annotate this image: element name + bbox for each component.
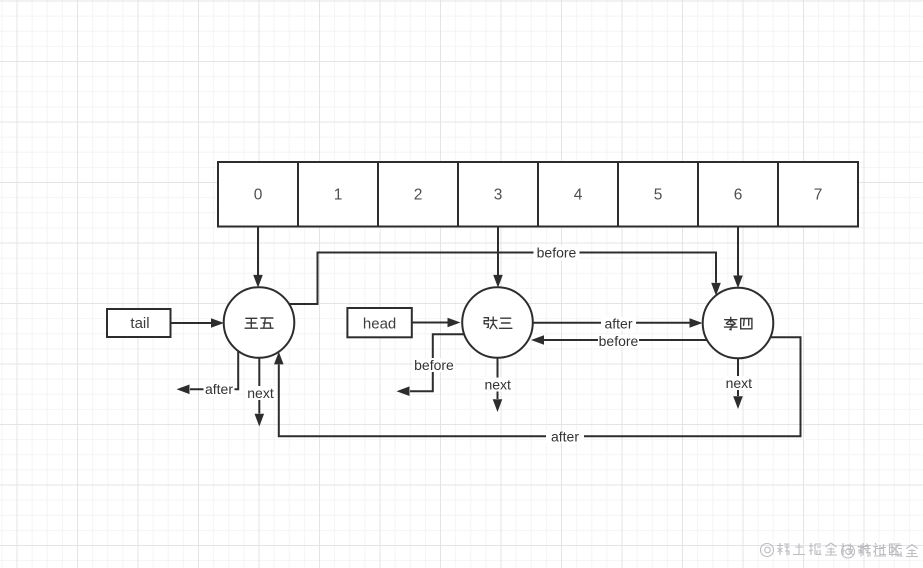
- svg-text:head: head: [363, 316, 396, 333]
- svg-text:0: 0: [254, 187, 263, 204]
- svg-text:before: before: [537, 245, 577, 261]
- svg-text:after: after: [551, 429, 579, 445]
- svg-text:tail: tail: [130, 315, 149, 332]
- svg-text:4: 4: [574, 187, 583, 204]
- svg-text:before: before: [599, 333, 639, 349]
- svg-text:before: before: [414, 357, 454, 373]
- svg-text:after: after: [604, 316, 632, 332]
- svg-text:next: next: [484, 377, 511, 393]
- svg-text:6: 6: [734, 187, 743, 204]
- svg-text:2: 2: [414, 187, 423, 204]
- svg-text:1: 1: [334, 187, 343, 204]
- svg-text:after: after: [205, 381, 233, 397]
- svg-text:5: 5: [654, 187, 663, 204]
- svg-text:7: 7: [814, 187, 823, 204]
- svg-text:next: next: [247, 385, 274, 401]
- svg-text:3: 3: [494, 187, 503, 204]
- svg-text:next: next: [726, 375, 753, 391]
